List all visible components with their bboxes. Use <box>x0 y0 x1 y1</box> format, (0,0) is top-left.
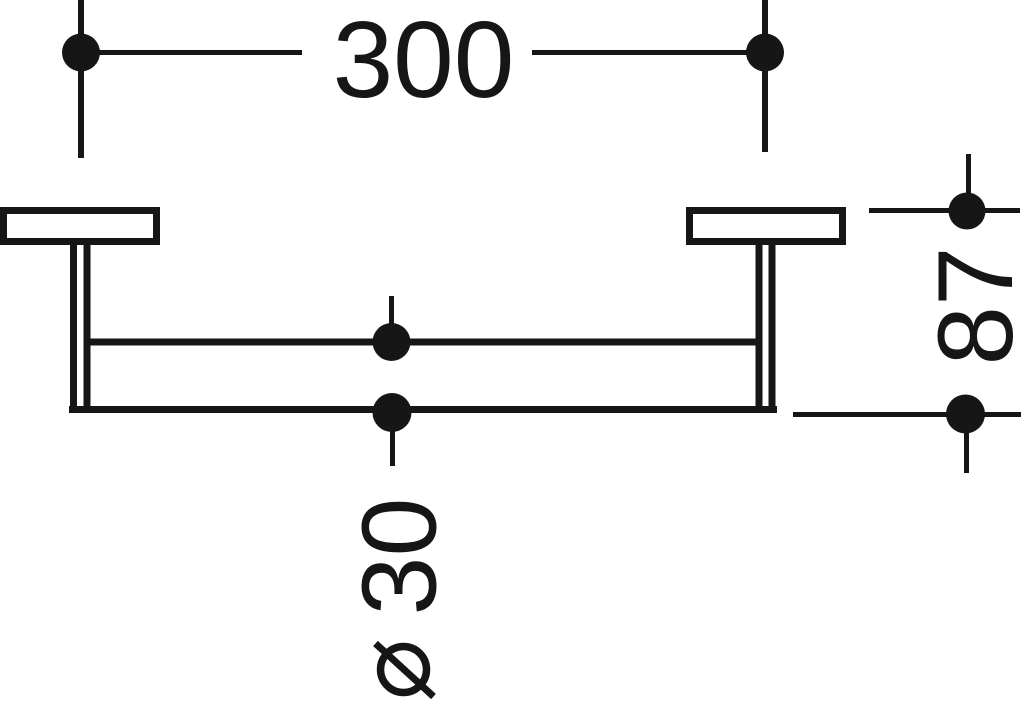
bar tube bottom outline <box>69 406 777 413</box>
dimension 87: top dimension line <box>869 208 1020 213</box>
right wall plate <box>690 211 843 242</box>
dimension 87: top terminator dot <box>949 193 986 230</box>
dimension 87: top tick <box>966 154 971 211</box>
diameter reference: upper tick <box>389 296 394 342</box>
bar tube top outline <box>87 339 759 346</box>
diameter reference: upper dot <box>373 323 411 361</box>
dimension 87: bottom dimension line <box>793 412 1021 417</box>
dimension 300: left extension line <box>78 0 84 158</box>
left wall plate <box>4 211 157 242</box>
svg-text:87: 87 <box>915 246 1024 365</box>
left support post outer line <box>70 245 77 412</box>
svg-text:300: 300 <box>333 0 515 121</box>
diameter symbol circle <box>381 647 427 693</box>
dimension 300: left dimension line segment <box>81 50 302 55</box>
dimension 300: right extension line <box>762 0 768 152</box>
diameter reference: lower dot <box>373 393 412 432</box>
svg-text:30: 30 <box>341 498 459 616</box>
right support post outer line <box>769 245 776 412</box>
dimension 300: right dimension line segment <box>532 50 765 55</box>
left support post inner line <box>84 245 91 410</box>
right support post inner line <box>756 245 763 410</box>
diameter symbol slash <box>376 644 434 697</box>
diameter reference: lower tick <box>390 412 395 467</box>
dimension 87: bottom terminator dot <box>946 395 985 434</box>
dimension 87: bottom tick <box>964 414 969 473</box>
dimension 300: left terminator dot <box>62 34 100 72</box>
dimension 300: right terminator dot <box>746 34 784 72</box>
